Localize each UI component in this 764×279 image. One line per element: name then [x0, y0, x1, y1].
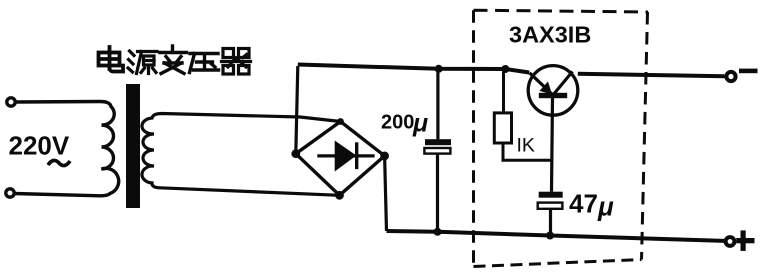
svg-text:200: 200 [381, 112, 414, 134]
resistor R1 top lead [502, 69, 505, 113]
dashed enclosure box [474, 10, 649, 266]
wire bottom rail [387, 231, 725, 241]
capacitor C2 plate negative (hollow) [538, 203, 563, 209]
capacitor C2 bottom lead [549, 209, 552, 236]
tilde under V [48, 160, 70, 165]
svg-text:IK: IK [517, 135, 535, 157]
源 [128, 51, 157, 74]
output terminal plus (ring) [726, 237, 735, 246]
capacitor C1 plate negative (hollow) [424, 148, 450, 154]
svg-text:μ: μ [597, 192, 614, 222]
label transformer 电源变压器 (drawn glyphs) [99, 46, 251, 74]
wire bridge left corner up to top rail [296, 66, 298, 154]
capacitor C1 plate positive (solid) [425, 139, 451, 145]
node bridge bottom corner [335, 191, 344, 200]
node C2 bottom on rail [546, 232, 554, 240]
transformer T1 core [126, 84, 140, 208]
bridge rectifier D1 diamond [296, 122, 385, 196]
capacitor C2 47u plate positive (solid) [539, 192, 563, 198]
plus sign [741, 230, 746, 251]
transformer T1 secondary winding (with wires to bridge top and bottom corners) [142, 114, 341, 196]
capacitor C1 200u top lead [436, 69, 439, 140]
变 [160, 46, 187, 74]
transformer T1 primary winding (with top+bottom wires from J1/J2) [14, 102, 119, 196]
transistor Q1 emitter arrow (PNP) [540, 82, 553, 95]
resistor R1 bottom lead to base node [503, 143, 551, 160]
wire bridge right corner down to bottom rail [385, 156, 387, 231]
node bridge top corner [337, 118, 344, 125]
transistor Q1 base lead down [552, 98, 553, 192]
transistor Q1 emitter line [530, 73, 554, 95]
transistor Q1 circle [528, 66, 578, 116]
capacitor C1 bottom lead [436, 154, 439, 232]
node C1 bottom on rail [434, 228, 442, 236]
wire top rail [298, 65, 529, 73]
压 [190, 54, 219, 73]
node bridge right corner [380, 152, 389, 161]
器 [222, 49, 251, 75]
transistor Q1 base bar [539, 93, 567, 98]
node bridge left corner [291, 149, 300, 158]
node R1 top on rail [501, 65, 509, 73]
svg-text:220V: 220V [9, 131, 70, 161]
resistor R1 body [494, 113, 511, 143]
svg-text:3AX3IB: 3AX3IB [509, 22, 591, 48]
minus sign [739, 69, 758, 74]
output terminal minus (ring) [726, 72, 735, 81]
svg-text:μ: μ [412, 110, 428, 138]
电 [108, 47, 112, 69]
node C1 top on rail [435, 65, 443, 73]
input terminal J2 (bottom left) [6, 189, 14, 197]
svg-text:47: 47 [569, 189, 598, 219]
input terminal J1 (top left) [7, 98, 15, 106]
bridge diode symbol [317, 154, 374, 157]
wire top rail right of transistor to minus terminal [578, 74, 725, 77]
transistor Q1 collector line [553, 72, 573, 96]
